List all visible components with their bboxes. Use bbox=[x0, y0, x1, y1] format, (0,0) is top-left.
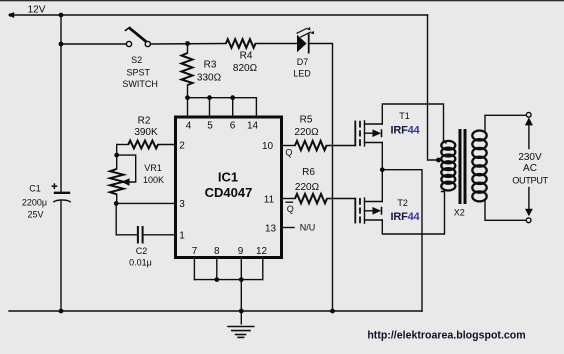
wire VR1 bottom to pin 3 bbox=[117, 194, 176, 203]
svg-text:25V: 25V bbox=[27, 210, 43, 220]
svg-text:S2: S2 bbox=[131, 55, 142, 65]
wire C1 bottom to rail bbox=[60, 201, 62, 311]
transformer X2 core bbox=[460, 129, 465, 204]
transformer X2 primary winding bbox=[441, 141, 455, 191]
svg-text:SWITCH: SWITCH bbox=[122, 79, 158, 89]
svg-text:http://elektroarea.blogspot.co: http://elektroarea.blogspot.com bbox=[367, 329, 525, 341]
svg-text:7: 7 bbox=[192, 246, 198, 257]
wire pin 13 stub bbox=[282, 227, 295, 229]
wire pin 5 stub bbox=[209, 98, 211, 116]
ground bbox=[227, 311, 254, 337]
svg-text:5: 5 bbox=[207, 121, 213, 132]
resistor R2 bbox=[117, 141, 176, 149]
wire to switch bbox=[61, 43, 126, 45]
svg-text:100K: 100K bbox=[143, 175, 164, 185]
svg-text:2: 2 bbox=[179, 141, 185, 152]
wire secondary top to output bbox=[485, 115, 526, 131]
svg-text:390K: 390K bbox=[134, 127, 158, 138]
svg-text:OUTPUT: OUTPUT bbox=[512, 176, 548, 186]
svg-text:12V: 12V bbox=[28, 5, 46, 16]
wire R4 to LED bbox=[256, 43, 298, 45]
node 12V/C1 junction bbox=[59, 13, 64, 18]
wire 12V feed right vertical bbox=[428, 15, 439, 160]
svg-text:IC1: IC1 bbox=[218, 170, 238, 185]
svg-text:R5: R5 bbox=[300, 115, 313, 126]
svg-text:N/U: N/U bbox=[300, 223, 316, 233]
switch S2 bbox=[125, 27, 151, 46]
node pin8 bus junction bbox=[214, 277, 219, 282]
node R3 top junction bbox=[185, 41, 190, 46]
wire secondary bottom from output bbox=[485, 201, 526, 221]
svg-text:C1: C1 bbox=[29, 183, 41, 193]
node pin5 bus junction bbox=[207, 95, 212, 100]
op-amp U1 IC1 CD4047 body bbox=[176, 117, 282, 258]
svg-text:D7: D7 bbox=[297, 57, 309, 67]
svg-text:CD4047: CD4047 bbox=[205, 185, 253, 200]
svg-text:6: 6 bbox=[230, 121, 236, 132]
node pin6 bus junction bbox=[230, 95, 235, 100]
wire ground rail bbox=[9, 310, 422, 312]
wire pin 11 to R6 bbox=[282, 198, 296, 200]
wire pin 6 stub bbox=[232, 98, 234, 116]
svg-text:SPST: SPST bbox=[127, 68, 151, 78]
resistor R4 bbox=[226, 39, 256, 48]
resistor R3 bbox=[182, 44, 193, 98]
wire switch to R4 bbox=[150, 43, 226, 46]
svg-text:330Ω: 330Ω bbox=[197, 72, 222, 83]
wire bottom pin stubs bbox=[193, 259, 195, 280]
wire pin 10 to R5 bbox=[282, 145, 296, 147]
svg-text:1: 1 bbox=[179, 230, 185, 241]
node pin9 bus junction bbox=[239, 277, 244, 282]
top border line bbox=[0, 0, 564, 1]
svg-text:Q: Q bbox=[287, 204, 294, 214]
node C1 ground junction bbox=[59, 309, 64, 314]
node center tap junction bbox=[436, 158, 441, 163]
node Q-bar output label bbox=[285, 202, 293, 214]
svg-text:220Ω: 220Ω bbox=[295, 182, 320, 193]
svg-text:4: 4 bbox=[186, 121, 192, 132]
svg-text:2200μ: 2200μ bbox=[22, 197, 47, 207]
svg-text:11: 11 bbox=[264, 195, 275, 206]
wire C2 to pin 1 bbox=[144, 234, 176, 236]
svg-text:X2: X2 bbox=[454, 208, 465, 218]
node T1/T2 junction bbox=[380, 167, 385, 172]
node pin4 bus junction bbox=[185, 95, 190, 100]
svg-text:T1: T1 bbox=[399, 111, 410, 121]
svg-text:R6: R6 bbox=[302, 167, 315, 178]
svg-text:AC: AC bbox=[523, 163, 537, 174]
svg-text:T2: T2 bbox=[397, 198, 408, 208]
svg-text:Q: Q bbox=[285, 148, 292, 158]
wire T2 source to transformer bottom bbox=[382, 192, 444, 235]
wire pin 14 stub bbox=[255, 98, 257, 116]
node IC ground junction bbox=[239, 309, 244, 314]
svg-text:R2: R2 bbox=[138, 116, 151, 127]
capacitor C2 bbox=[138, 226, 143, 244]
potentiometer VR1 bbox=[110, 155, 136, 194]
transistor Q2 T2 IRF44 mosfet bbox=[355, 198, 382, 224]
svg-text:230V: 230V bbox=[518, 152, 542, 163]
svg-text:C2: C2 bbox=[136, 246, 148, 256]
svg-text:IRF44: IRF44 bbox=[391, 124, 421, 136]
capacitor C1 bbox=[52, 183, 71, 202]
transformer X2 secondary winding bbox=[472, 131, 486, 202]
svg-text:R4: R4 bbox=[240, 50, 253, 61]
svg-text:10: 10 bbox=[262, 141, 274, 152]
svg-text:LED: LED bbox=[293, 69, 311, 79]
wire T1 drain to transformer bbox=[382, 104, 443, 141]
wire T2 drain up to junction bbox=[381, 170, 383, 202]
svg-text:14: 14 bbox=[247, 121, 259, 132]
wire LED cathode down to ground rail bbox=[309, 44, 333, 312]
wire IC ground drop bbox=[240, 280, 242, 311]
node LED ground junction bbox=[330, 309, 335, 314]
wire top pin bus bbox=[188, 97, 257, 99]
wire R5 to T1 gate bbox=[327, 145, 356, 147]
svg-text:13: 13 bbox=[265, 223, 277, 234]
wire T1 source down bbox=[381, 143, 383, 170]
transistor Q1 T1 IRF44 mosfet bbox=[355, 121, 382, 147]
svg-text:VR1: VR1 bbox=[144, 163, 162, 173]
wire down to C2 bbox=[116, 203, 136, 234]
wire junction to right vertical bbox=[382, 170, 422, 311]
svg-text:12: 12 bbox=[256, 246, 268, 257]
output arrow down bbox=[525, 188, 533, 217]
resistor R6 bbox=[295, 194, 327, 203]
node pin1 branch junction bbox=[114, 201, 119, 206]
node VR1 top junction bbox=[114, 153, 119, 158]
svg-text:IRF44: IRF44 bbox=[391, 211, 421, 223]
wire R2 to VR1 bbox=[116, 145, 118, 169]
wire pin 4 stub bbox=[187, 98, 189, 116]
LED D7 bbox=[297, 27, 315, 54]
12V supply terminal bbox=[8, 12, 14, 18]
wire R6 to T2 gate bbox=[327, 198, 355, 200]
svg-text:9: 9 bbox=[238, 246, 244, 257]
svg-text:R3: R3 bbox=[204, 60, 217, 71]
svg-text:8: 8 bbox=[214, 246, 220, 257]
node output terminal bottom bbox=[526, 218, 531, 223]
svg-text:0.01μ: 0.01μ bbox=[129, 257, 152, 267]
output arrow up bbox=[525, 117, 533, 148]
svg-text:220Ω: 220Ω bbox=[294, 127, 319, 138]
node switch branch junction bbox=[59, 42, 64, 47]
svg-text:820Ω: 820Ω bbox=[233, 63, 258, 74]
wire C1 branch vertical bbox=[60, 15, 62, 192]
node output terminal top bbox=[526, 112, 531, 117]
wire 12V rail bbox=[11, 14, 428, 16]
resistor R5 bbox=[295, 141, 327, 150]
svg-text:3: 3 bbox=[179, 199, 185, 210]
wire bottom pin bus bbox=[194, 279, 262, 281]
